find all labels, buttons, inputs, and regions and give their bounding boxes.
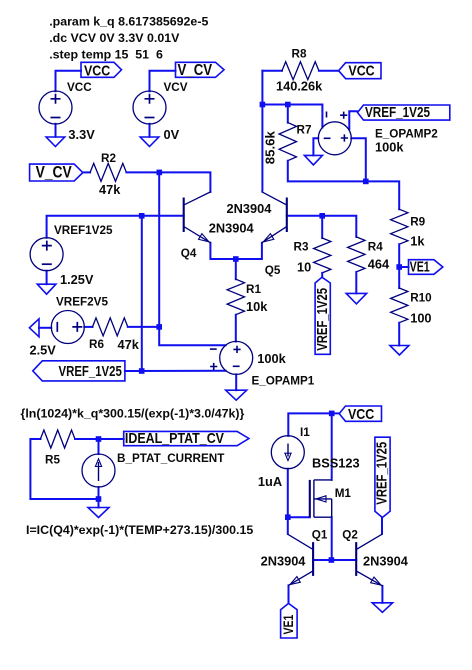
- svg-text:1.25V: 1.25V: [60, 272, 94, 287]
- svg-text:VREF_1V25: VREF_1V25: [59, 363, 123, 380]
- svg-text:M1: M1: [335, 487, 352, 500]
- svg-text:464: 464: [368, 256, 390, 271]
- svg-text:10k: 10k: [246, 299, 268, 314]
- svg-text:R9: R9: [410, 215, 425, 228]
- svg-text:2N3904: 2N3904: [209, 221, 255, 236]
- svg-text:R7: R7: [297, 123, 312, 136]
- svg-text:BSS123: BSS123: [312, 455, 360, 470]
- svg-text:VCC: VCC: [348, 61, 374, 78]
- svg-text:R3: R3: [294, 240, 309, 253]
- svg-text:Q2: Q2: [342, 529, 358, 542]
- svg-text:85.6k: 85.6k: [263, 131, 278, 165]
- svg-text:.param k_q 8.617385692e-5: .param k_q 8.617385692e-5: [49, 14, 208, 28]
- svg-text:1uA: 1uA: [258, 474, 282, 489]
- svg-text:B_PTAT_CURRENT: B_PTAT_CURRENT: [117, 452, 225, 465]
- svg-text:VCC: VCC: [348, 405, 374, 422]
- svg-text:VREF1V25: VREF1V25: [54, 224, 113, 237]
- svg-text:Q1: Q1: [312, 529, 328, 542]
- svg-text:VREF_1V25: VREF_1V25: [314, 288, 331, 351]
- svg-text:Q4: Q4: [181, 247, 197, 260]
- svg-text:R10: R10: [410, 292, 432, 305]
- svg-text:VCC: VCC: [84, 61, 110, 78]
- svg-text:140.26k: 140.26k: [276, 79, 323, 94]
- svg-text:2N3904: 2N3904: [363, 553, 409, 568]
- svg-text:IDEAL_PTAT_CV: IDEAL_PTAT_CV: [125, 429, 225, 446]
- svg-text:I=IC(Q4)*exp(-1)*(TEMP+273.15): I=IC(Q4)*exp(-1)*(TEMP+273.15)/300.15: [26, 523, 253, 537]
- svg-text:{ln(1024)*k_q*300.15/(exp(-1)*: {ln(1024)*k_q*300.15/(exp(-1)*3.0/47k)}: [21, 407, 245, 421]
- svg-text:47k: 47k: [99, 182, 121, 197]
- svg-text:R1: R1: [246, 283, 261, 296]
- svg-text:.step temp 15 51 6: .step temp 15 51 6: [49, 48, 163, 62]
- svg-text:2N3904: 2N3904: [261, 553, 307, 568]
- svg-text:2N3904: 2N3904: [227, 201, 273, 216]
- svg-text:3.3V: 3.3V: [68, 127, 95, 142]
- svg-text:.dc VCV 0V 3.3V 0.01V: .dc VCV 0V 3.3V 0.01V: [49, 31, 180, 45]
- svg-text:10: 10: [297, 260, 311, 275]
- svg-text:1k: 1k: [410, 233, 425, 248]
- svg-text:V_CV: V_CV: [178, 62, 213, 79]
- svg-text:VE1: VE1: [281, 614, 297, 634]
- svg-text:2.5V: 2.5V: [30, 342, 57, 357]
- svg-text:47k: 47k: [118, 337, 140, 352]
- svg-text:100: 100: [410, 311, 431, 326]
- svg-text:VCC: VCC: [67, 81, 92, 94]
- svg-text:100k: 100k: [375, 139, 404, 154]
- svg-text:0V: 0V: [164, 127, 180, 142]
- svg-text:VREF_1V25: VREF_1V25: [373, 442, 390, 505]
- svg-text:VCV: VCV: [164, 81, 188, 94]
- svg-text:R2: R2: [101, 152, 116, 165]
- svg-text:VE1: VE1: [410, 258, 430, 275]
- svg-text:V_CV: V_CV: [36, 164, 72, 182]
- svg-text:Q5: Q5: [265, 264, 281, 277]
- svg-text:VREF_1V25: VREF_1V25: [365, 104, 430, 121]
- svg-text:R8: R8: [292, 47, 307, 60]
- svg-text:R4: R4: [368, 240, 383, 253]
- svg-text:R5: R5: [45, 453, 60, 466]
- svg-text:VREF2V5: VREF2V5: [56, 295, 108, 308]
- svg-text:E_OPAMP1: E_OPAMP1: [252, 374, 315, 387]
- svg-text:100k: 100k: [257, 351, 286, 366]
- svg-text:I1: I1: [300, 426, 310, 439]
- svg-text:R6: R6: [89, 338, 104, 351]
